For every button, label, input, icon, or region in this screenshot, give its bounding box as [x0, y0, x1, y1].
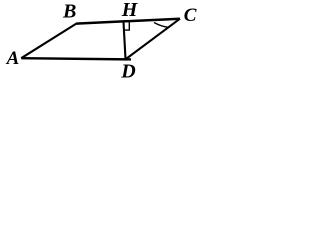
side AD	[21, 58, 131, 59]
right angle mark at H	[123, 22, 129, 30]
svg-text:H: H	[121, 0, 139, 21]
side AB	[21, 24, 76, 59]
altitude DH	[124, 22, 126, 59]
svg-text:B: B	[62, 1, 76, 23]
angle arc at C	[154, 23, 168, 28]
svg-text:C: C	[184, 5, 197, 26]
side BC	[76, 19, 180, 24]
svg-text:D: D	[120, 61, 135, 80]
svg-text:A: A	[6, 48, 20, 69]
side DC	[126, 19, 180, 60]
